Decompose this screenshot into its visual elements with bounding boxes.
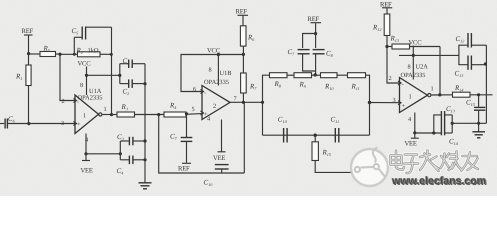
op-amp U1B xyxy=(192,55,237,152)
svg-text:VEE: VEE xyxy=(405,141,417,148)
resistor R10 xyxy=(321,73,348,91)
node REF (top-left flag) xyxy=(22,28,34,55)
node VCC (U1B) xyxy=(207,48,221,57)
wire U1A output xyxy=(102,114,117,116)
wire U2A output xyxy=(431,93,452,96)
hanzi dian xyxy=(391,151,405,170)
svg-text:VEE: VEE xyxy=(213,155,225,162)
svg-text:REF: REF xyxy=(236,9,248,16)
resistor R8 xyxy=(270,73,295,89)
hanzi zi xyxy=(405,155,419,174)
svg-text:3: 3 xyxy=(393,97,396,104)
capacitor C9 (U1B VEE bypass) xyxy=(204,165,229,187)
wire U1B output xyxy=(230,101,264,104)
svg-text:+: + xyxy=(402,103,406,110)
svg-text:REF: REF xyxy=(178,166,190,173)
node REF (under C7) xyxy=(178,163,191,172)
node VCC (U1A) xyxy=(78,61,92,77)
capacitor C8 (right of REF pair) xyxy=(313,34,334,77)
svg-text:U2A: U2A xyxy=(416,64,429,71)
hanzi you xyxy=(462,152,479,171)
svg-text:1kΩ: 1kΩ xyxy=(88,48,99,55)
op-amp U2A xyxy=(389,55,434,138)
svg-text:8: 8 xyxy=(80,82,83,89)
wire U1B feedback top xyxy=(181,53,245,92)
svg-text:VCC: VCC xyxy=(409,40,423,47)
resistor R5 xyxy=(29,45,62,57)
capacitor C13 (U2A VCC bypass bottom) xyxy=(455,55,488,78)
resistor R1 xyxy=(15,54,31,126)
svg-text:OPA2335: OPA2335 xyxy=(78,95,103,102)
svg-text:8: 8 xyxy=(209,67,212,74)
capacitor C3 (VEE bypass) xyxy=(117,133,147,154)
hanzi shao xyxy=(441,152,463,171)
capacitor pair C13 C14 (U2A VEE bypass) xyxy=(413,105,458,146)
hanzi row (casing) xyxy=(391,151,479,174)
svg-text:8: 8 xyxy=(408,64,411,71)
svg-text:VEE: VEE xyxy=(81,168,93,175)
capacitor C2 (VCC bypass) xyxy=(120,75,147,96)
resistor R3 xyxy=(117,103,164,117)
wire ladder bottom row xyxy=(263,134,370,136)
svg-text:7: 7 xyxy=(234,96,237,103)
wire ground rail (x=145) xyxy=(144,64,146,183)
resistor R11 xyxy=(348,73,370,103)
wire VEE bypass feed xyxy=(86,153,120,155)
wire ground bus (right) xyxy=(452,122,486,124)
svg-text:www.elecfans.com: www.elecfans.com xyxy=(391,175,486,187)
svg-text:U1B: U1B xyxy=(220,70,232,77)
node REF (above R6) xyxy=(236,9,249,26)
wire R3/R4 node down to bottom bus xyxy=(159,115,245,173)
resistor R15 (ladder shunt) xyxy=(312,134,352,173)
capacitor C15 (output to gnd) xyxy=(466,95,485,125)
svg-text:1: 1 xyxy=(83,113,86,120)
svg-text:OPA2335: OPA2335 xyxy=(204,79,229,86)
node VEE (U1A) xyxy=(81,152,93,174)
resistor R14 (output series) xyxy=(453,84,493,97)
wire R5 junction down to pin2 xyxy=(60,54,75,101)
logo circle xyxy=(351,149,388,186)
svg-text:-: - xyxy=(204,90,206,97)
wire ladder left rail xyxy=(263,75,270,102)
resistor R2 1kOhm (feedback) xyxy=(60,47,113,57)
resistor R6 xyxy=(240,26,255,55)
svg-text:1: 1 xyxy=(431,86,434,93)
svg-text:+: + xyxy=(77,121,81,128)
svg-text:REF: REF xyxy=(22,28,34,35)
resistor R7 xyxy=(241,55,258,103)
hanzi fa xyxy=(420,151,439,172)
svg-text:3: 3 xyxy=(61,120,64,127)
node REF (mid flag) xyxy=(308,16,322,35)
capacitor C11 (ladder bottom right) xyxy=(331,116,340,143)
wire input node to pin3 xyxy=(8,123,75,125)
wire feedback down to U2A output xyxy=(439,47,441,95)
capacitor C7 (REF pair left) xyxy=(288,34,316,72)
ground (right) xyxy=(472,123,485,138)
capacitor C12 (U2A VCC bypass top) xyxy=(456,33,487,55)
ground (left) xyxy=(139,183,152,189)
wire right rail down xyxy=(485,45,487,123)
svg-text:2: 2 xyxy=(389,75,392,82)
node REF (top right flag) xyxy=(380,2,392,15)
capacitor C1 (VCC bypass) xyxy=(120,57,145,75)
svg-text:1: 1 xyxy=(409,94,412,101)
wire feedback rail down to output xyxy=(111,54,113,114)
op-amp U1A xyxy=(61,67,107,154)
svg-text:2: 2 xyxy=(62,98,65,105)
svg-text:REF: REF xyxy=(308,16,320,23)
capacitor C4 (VEE bypass) xyxy=(117,154,147,176)
capacitor C6 (input) xyxy=(0,115,16,129)
resistor R9 xyxy=(294,73,321,89)
svg-text:VCC: VCC xyxy=(78,61,92,68)
svg-text:2: 2 xyxy=(213,103,216,110)
capacitor C5 (feedback) xyxy=(72,27,112,55)
wire REF node down to pin2 xyxy=(387,47,400,84)
node VCC (U2A) xyxy=(399,40,459,58)
svg-text:-: - xyxy=(402,81,404,88)
svg-text:1: 1 xyxy=(104,106,107,113)
resistor R12 xyxy=(372,14,390,48)
wire ladder right rail to U2A pin3 xyxy=(368,101,400,135)
node VEE (U1B) xyxy=(213,152,226,162)
node VEE (U2A) xyxy=(405,138,419,147)
resistor R13 (U2A feedback) xyxy=(387,35,440,50)
resistor R4 xyxy=(164,102,202,118)
svg-text:5: 5 xyxy=(192,106,195,113)
capacitor C7 (to REF, below R4 node) xyxy=(170,114,192,163)
wire U1B output down to bottom bus xyxy=(243,102,245,173)
wire VCC bypass feed xyxy=(87,74,120,76)
capacitor C10 (ladder bottom left) xyxy=(278,116,288,143)
